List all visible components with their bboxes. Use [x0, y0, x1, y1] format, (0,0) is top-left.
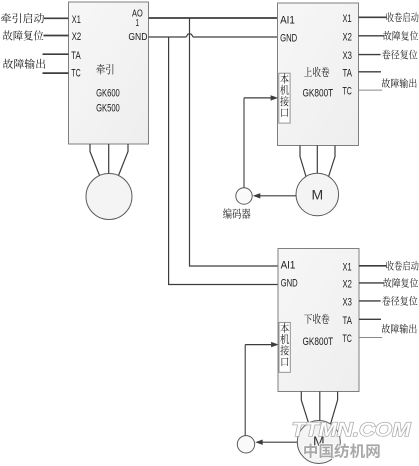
svg-text:X3: X3 — [343, 297, 352, 309]
svg-text:TA: TA — [71, 50, 81, 62]
svg-text:GK800T: GK800T — [303, 336, 334, 348]
svg-text:TA: TA — [343, 315, 353, 327]
svg-text:M: M — [311, 187, 323, 203]
svg-text:X3: X3 — [343, 50, 352, 62]
svg-text:GK800T: GK800T — [303, 87, 334, 99]
svg-text:X1: X1 — [72, 14, 81, 26]
svg-text:X2: X2 — [72, 31, 81, 43]
svg-text:GK600: GK600 — [96, 87, 120, 99]
svg-text:GND: GND — [281, 278, 298, 290]
svg-text:TC: TC — [71, 68, 80, 80]
svg-text:TC: TC — [343, 86, 352, 98]
svg-text:X1: X1 — [343, 261, 352, 273]
svg-text:1: 1 — [136, 17, 140, 29]
svg-text:TA: TA — [343, 67, 353, 79]
svg-text:X2: X2 — [343, 31, 352, 43]
svg-text:GND: GND — [280, 33, 297, 45]
svg-text:X1: X1 — [343, 13, 352, 25]
svg-text:GK500: GK500 — [96, 103, 120, 115]
svg-text:AI1: AI1 — [280, 15, 295, 27]
svg-text:TC: TC — [343, 333, 352, 345]
svg-text:GND: GND — [128, 31, 147, 43]
svg-text:TTMN.COM: TTMN.COM — [292, 419, 412, 441]
svg-text:X2: X2 — [343, 279, 352, 291]
svg-text:AI1: AI1 — [281, 260, 296, 272]
